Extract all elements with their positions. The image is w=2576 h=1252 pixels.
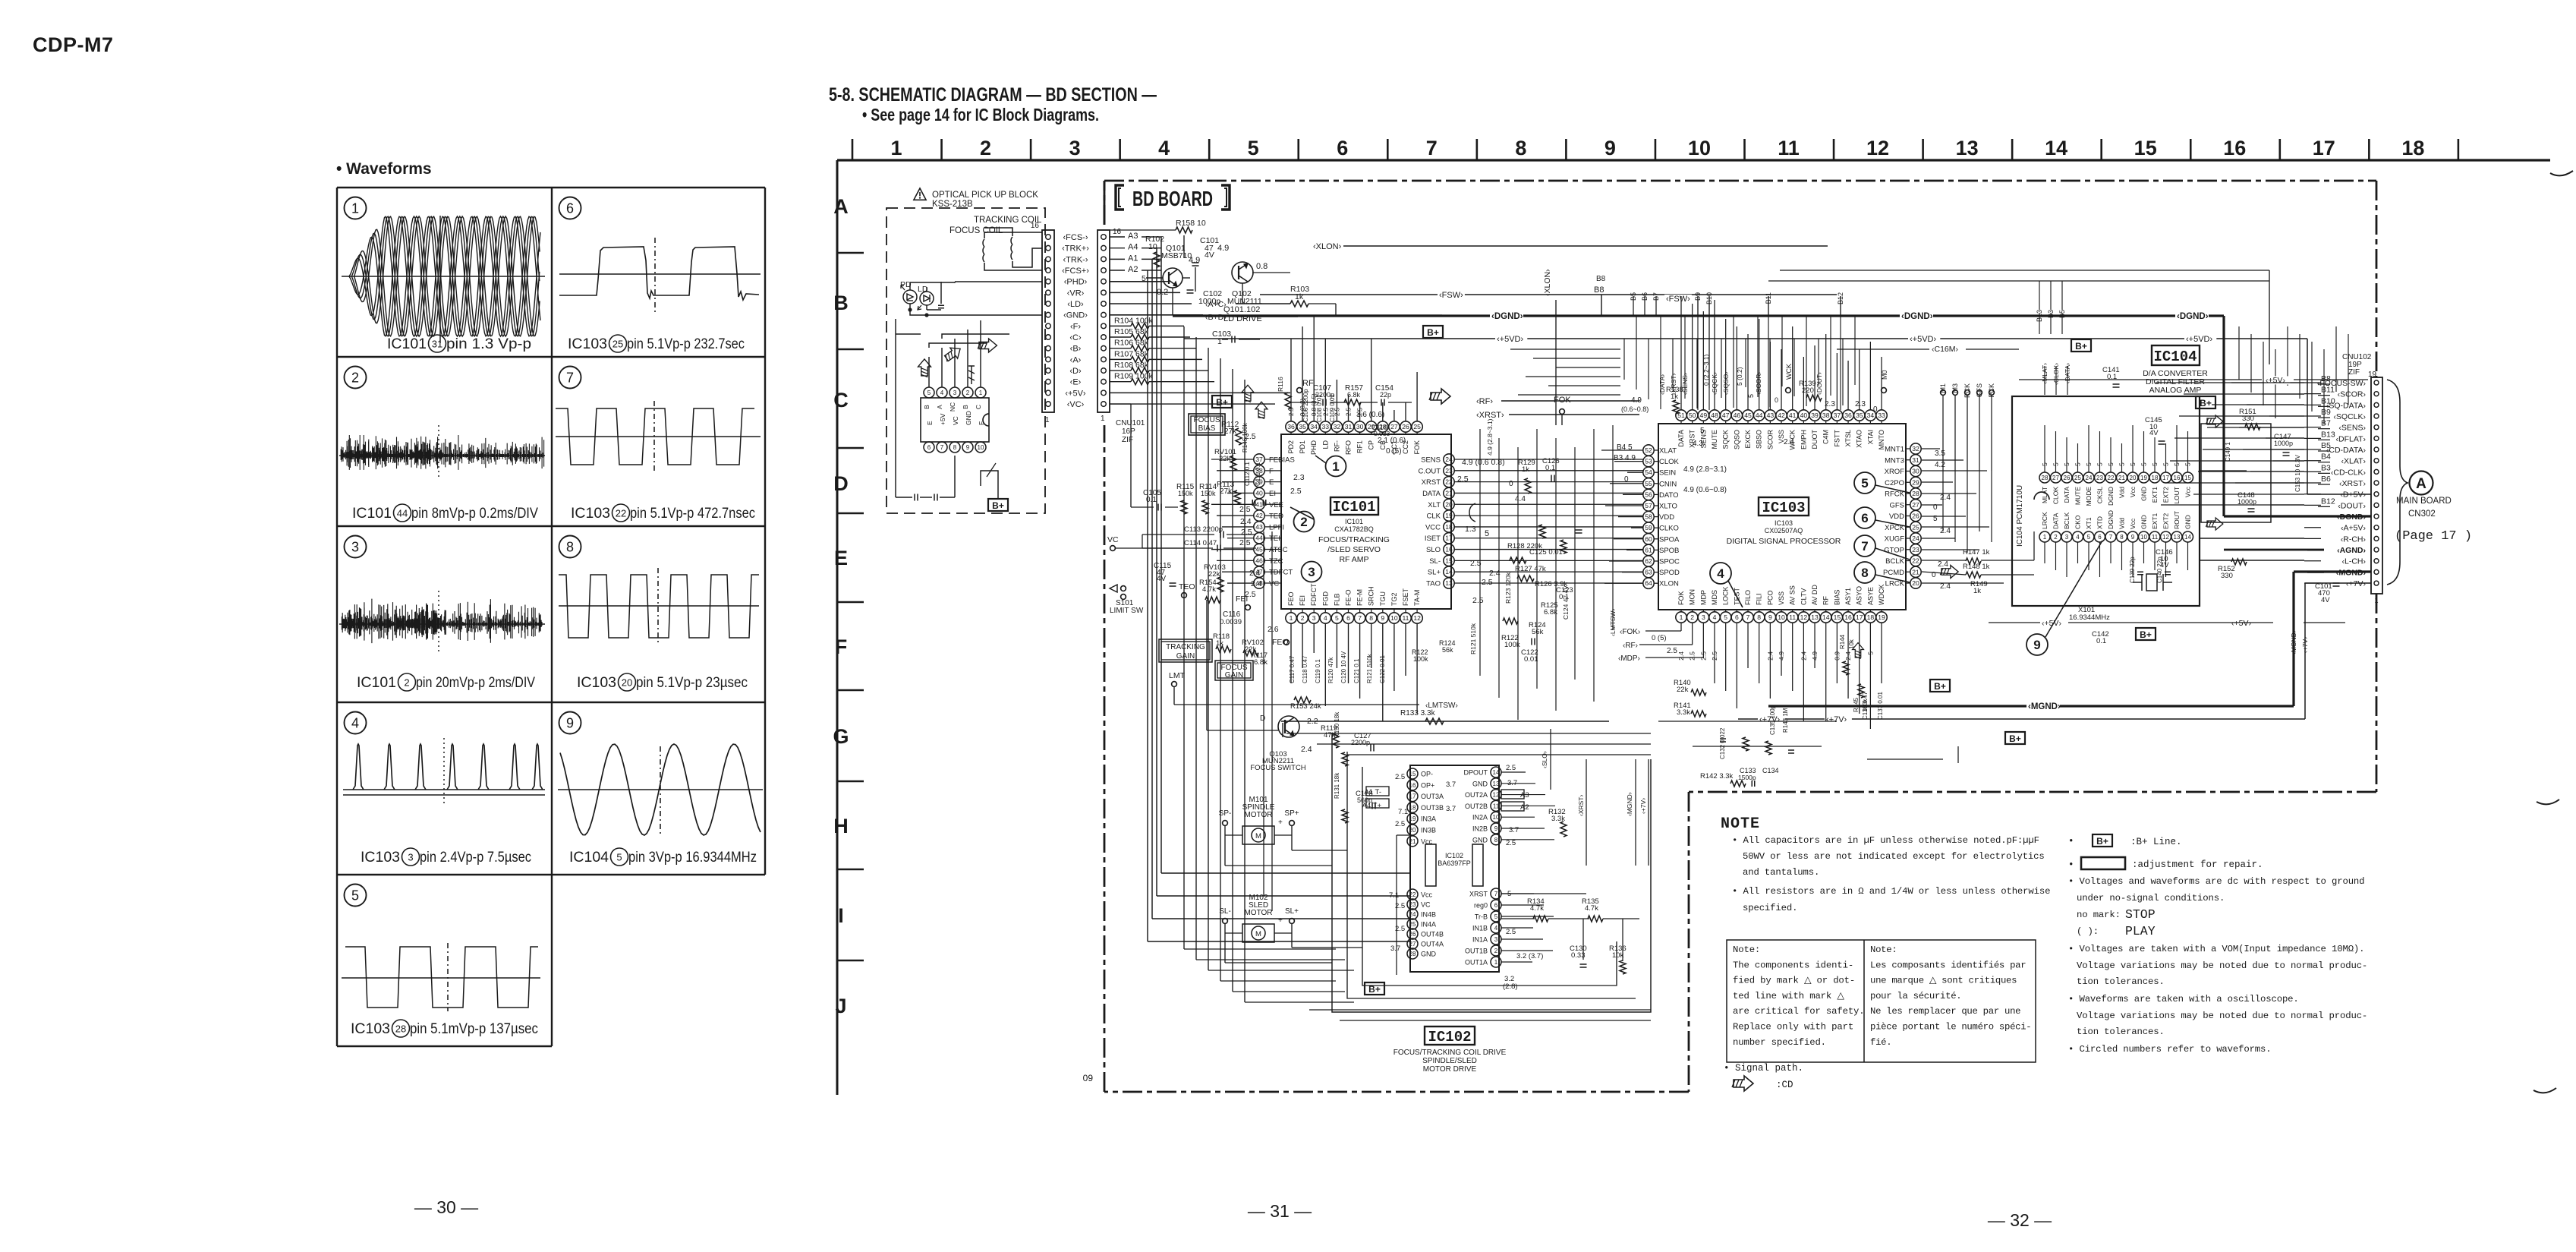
svg-text:42: 42 <box>1778 412 1785 419</box>
svg-text:SEIN: SEIN <box>1659 469 1676 478</box>
svg-text:MAIN BOARD: MAIN BOARD <box>2396 497 2452 506</box>
svg-text:LRCK: LRCK <box>2041 512 2049 529</box>
svg-text:TEO: TEO <box>1179 582 1195 591</box>
svg-text:1: 1 <box>890 137 902 159</box>
svg-text:24: 24 <box>1409 911 1416 918</box>
svg-text:— 31 —: — 31 — <box>1248 1201 1312 1221</box>
svg-text:TGU: TGU <box>1379 591 1387 606</box>
svg-text:‹DGND›: ‹DGND› <box>2337 512 2366 522</box>
svg-text:‹LMTSW›: ‹LMTSW› <box>1609 608 1617 636</box>
svg-text:330: 330 <box>2242 415 2254 423</box>
svg-text:14: 14 <box>1493 769 1500 776</box>
svg-text:16: 16 <box>1031 222 1040 230</box>
svg-text:RF: RF <box>1822 596 1830 605</box>
svg-text:2.4: 2.4 <box>1940 527 1951 535</box>
svg-text:PHD: PHD <box>1310 440 1318 456</box>
svg-text:9: 9 <box>2033 638 2040 652</box>
svg-text:4.9 (0.6~0.8): 4.9 (0.6~0.8) <box>1683 486 1727 494</box>
svg-text:2: 2 <box>1300 515 1307 529</box>
svg-text:13: 13 <box>1445 579 1453 587</box>
svg-text:28: 28 <box>395 1023 406 1035</box>
svg-text:TRACKING: TRACKING <box>1166 643 1205 651</box>
svg-text:10: 10 <box>1148 242 1157 251</box>
svg-text:1: 1 <box>1045 416 1050 424</box>
svg-text:CNIN: CNIN <box>1659 480 1677 488</box>
svg-text:EXT2: EXT2 <box>2162 487 2170 503</box>
svg-text:FE-O: FE-O <box>1345 590 1353 607</box>
svg-text:‹MGND›: ‹MGND› <box>2028 702 2061 711</box>
svg-text:4.9: 4.9 <box>1778 651 1785 661</box>
svg-text:4V: 4V <box>2321 596 2330 604</box>
svg-text:3: 3 <box>953 389 957 396</box>
svg-text:A: A <box>936 405 943 409</box>
svg-text:‹DATA›: ‹DATA› <box>1658 374 1666 395</box>
svg-text:Vcc: Vcc <box>2129 486 2137 497</box>
svg-text:— 32 —: — 32 — <box>1988 1210 2052 1230</box>
svg-text:under no-signal conditions.: under no-signal conditions. <box>2077 893 2225 904</box>
svg-text:XTD: XTD <box>2096 516 2104 529</box>
svg-text:‹FOK›: ‹FOK› <box>1620 628 1640 636</box>
svg-text:35: 35 <box>1856 412 1863 419</box>
svg-text:4.9 (2.8~3.1): 4.9 (2.8~3.1) <box>1683 465 1727 474</box>
svg-text:C120 10 4V: C120 10 4V <box>1340 651 1347 683</box>
svg-text:C153 10 6.3V: C153 10 6.3V <box>2294 454 2301 492</box>
svg-text:41: 41 <box>1789 412 1797 419</box>
svg-text:2: 2 <box>966 389 970 396</box>
svg-text:34: 34 <box>1310 423 1318 430</box>
svg-text:MOTOR DRIVE: MOTOR DRIVE <box>1423 1065 1477 1074</box>
svg-text:0: 0 <box>1624 475 1629 484</box>
svg-text:E: E <box>1269 478 1274 487</box>
svg-text:16: 16 <box>1445 546 1453 553</box>
svg-text:•: • <box>2068 836 2074 847</box>
svg-text:2: 2 <box>980 137 991 159</box>
svg-text:RF1: RF1 <box>1356 440 1364 453</box>
svg-text:‹TRK-›: ‹TRK-› <box>1063 255 1088 264</box>
svg-text:3.7: 3.7 <box>1446 781 1456 789</box>
svg-text:R130 18k: R130 18k <box>1334 711 1340 738</box>
svg-text:AV DD: AV DD <box>1811 585 1819 605</box>
svg-text:18: 18 <box>1409 804 1416 811</box>
svg-text:— 30 —: — 30 — <box>414 1197 478 1217</box>
svg-text:17: 17 <box>2313 137 2335 159</box>
svg-text:B+: B+ <box>2096 836 2108 847</box>
svg-text:C149 1: C149 1 <box>2225 442 2231 462</box>
svg-text:C111 0.1: C111 0.1 <box>1255 462 1261 486</box>
svg-text:• See page 14 for IC Block Dia: • See page 14 for IC Block Diagrams. <box>862 105 1099 125</box>
svg-text:1.3: 1.3 <box>1465 525 1476 534</box>
svg-text:DATA: DATA <box>2052 512 2060 529</box>
svg-text:AV SS: AV SS <box>1789 585 1797 605</box>
svg-text:OUT3B: OUT3B <box>1421 804 1444 812</box>
svg-text:reg0: reg0 <box>1474 902 1488 910</box>
svg-text:FOK: FOK <box>1413 440 1421 455</box>
svg-text:4: 4 <box>1324 614 1327 622</box>
svg-text:The components identi-: The components identi- <box>1733 960 1853 970</box>
svg-text:18: 18 <box>1867 613 1875 621</box>
svg-text:A: A <box>833 195 849 218</box>
svg-text:OUT3A: OUT3A <box>1421 793 1444 800</box>
svg-text:1k: 1k <box>1522 465 1529 474</box>
svg-text:14: 14 <box>1445 568 1453 576</box>
svg-text:R144: R144 <box>1839 634 1846 649</box>
svg-text:B4: B4 <box>2321 453 2331 462</box>
svg-text:FEBIAS: FEBIAS <box>1269 456 1295 465</box>
svg-text:CX02507AQ: CX02507AQ <box>1765 527 1803 535</box>
svg-text:15: 15 <box>1445 557 1453 564</box>
svg-text:7.1: 7.1 <box>1389 891 1399 900</box>
svg-text:DUOT: DUOT <box>1811 430 1819 449</box>
svg-text:2.3: 2.3 <box>1293 473 1305 482</box>
svg-text:50WV or less are not indicated: 50WV or less are not indicated except fo… <box>1743 851 2045 862</box>
svg-text:1: 1 <box>1680 613 1683 621</box>
svg-text:20: 20 <box>1912 579 1919 587</box>
svg-text:‹GND›: ‹GND› <box>1063 311 1088 320</box>
svg-text:R120 47k: R120 47k <box>1327 657 1334 683</box>
svg-text:SL-: SL- <box>1429 557 1441 566</box>
svg-text:19: 19 <box>1445 512 1453 519</box>
svg-text:M: M <box>1255 832 1261 840</box>
svg-text:• Waveforms: • Waveforms <box>336 160 432 178</box>
svg-text:GND: GND <box>2184 515 2192 529</box>
svg-text:19: 19 <box>1409 815 1416 822</box>
svg-text:• Voltages are taken with a VO: • Voltages are taken with a VOM(Input im… <box>2068 944 2364 954</box>
svg-text:27: 27 <box>1409 941 1416 948</box>
svg-text:SQCK: SQCK <box>1722 430 1730 449</box>
svg-text:FLB: FLB <box>1333 593 1340 606</box>
svg-text:XLT: XLT <box>1428 501 1441 509</box>
svg-text:2.4: 2.4 <box>1940 582 1951 591</box>
svg-text:SPOC: SPOC <box>1659 558 1680 566</box>
svg-text:‹DGND›: ‹DGND› <box>2177 312 2209 321</box>
svg-text:6.8k: 6.8k <box>1254 658 1268 667</box>
svg-text:4: 4 <box>351 715 359 730</box>
svg-text:5: 5 <box>1724 613 1727 621</box>
svg-text:OPTICAL PICK UP BLOCK: OPTICAL PICK UP BLOCK <box>932 191 1038 200</box>
svg-text:H: H <box>833 815 849 837</box>
svg-text:R131 18k: R131 18k <box>1334 772 1340 799</box>
svg-text:20: 20 <box>1445 500 1453 508</box>
svg-text:SPOB: SPOB <box>1659 547 1679 555</box>
svg-text:TG2: TG2 <box>1390 592 1398 606</box>
svg-text:7: 7 <box>1358 614 1362 622</box>
svg-text:55: 55 <box>1645 480 1652 487</box>
svg-text:100k: 100k <box>1862 699 1869 712</box>
svg-text:8: 8 <box>1757 613 1761 621</box>
svg-text:4: 4 <box>1494 925 1498 932</box>
svg-text:R145: R145 <box>1853 697 1860 712</box>
svg-text:XROF: XROF <box>1885 468 1905 476</box>
svg-text:SP+: SP+ <box>1284 809 1299 818</box>
svg-text:SL-: SL- <box>1219 907 1231 916</box>
svg-text:Les composants identifiés par: Les composants identifiés par <box>1870 960 2026 970</box>
svg-text:16: 16 <box>1409 782 1416 789</box>
svg-text:22k: 22k <box>1677 686 1689 694</box>
svg-text:32: 32 <box>1334 423 1341 430</box>
svg-text:I: I <box>838 904 844 927</box>
svg-text:27: 27 <box>1390 423 1398 430</box>
svg-text:SENS: SENS <box>1421 456 1441 465</box>
svg-text:4.3: 4.3 <box>1693 440 1703 448</box>
svg-text:OUT2B: OUT2B <box>1465 803 1488 810</box>
svg-text:CLOK: CLOK <box>2052 487 2060 504</box>
svg-text:specified.: specified. <box>1743 903 1797 913</box>
svg-text:no mark:: no mark: <box>2077 910 2121 920</box>
svg-text:24: 24 <box>2086 475 2093 481</box>
svg-text:SCOR: SCOR <box>1766 430 1774 450</box>
svg-text:OP-: OP- <box>1421 771 1433 778</box>
svg-text:60: 60 <box>1645 535 1652 543</box>
svg-text:GAIN: GAIN <box>1225 671 1243 680</box>
svg-text:FDFCT: FDFCT <box>1310 583 1318 606</box>
svg-text:C117 0.47: C117 0.47 <box>1289 655 1296 683</box>
svg-text:‹FCS-›: ‹FCS-› <box>1063 233 1088 242</box>
svg-text:‹RF›: ‹RF› <box>1476 397 1493 406</box>
svg-text:VC: VC <box>1421 901 1431 909</box>
svg-text:2.5: 2.5 <box>1506 839 1516 847</box>
svg-text:NOTE: NOTE <box>1721 815 1760 833</box>
svg-text:‹L-CH›: ‹L-CH› <box>2342 557 2367 566</box>
svg-text:DGND: DGND <box>2107 487 2115 506</box>
svg-text:Q101.102: Q101.102 <box>1223 305 1260 314</box>
svg-text:5-8. SCHEMATIC DIAGRAM — BD SE: 5-8. SCHEMATIC DIAGRAM — BD SECTION — <box>829 84 1157 106</box>
svg-text:4: 4 <box>1713 613 1717 621</box>
svg-text:EMPH: EMPH <box>1800 430 1807 449</box>
svg-text:2.3: 2.3 <box>1855 400 1866 408</box>
svg-text:DIGITAL SIGNAL PROCESSOR: DIGITAL SIGNAL PROCESSOR <box>1727 537 1841 546</box>
svg-text:10: 10 <box>1493 814 1500 821</box>
svg-text:E: E <box>834 547 848 569</box>
svg-text:33: 33 <box>1878 412 1885 419</box>
svg-text:‹XRST›: ‹XRST› <box>1577 795 1585 817</box>
svg-text:D: D <box>833 472 849 495</box>
svg-text:‹A+C›: ‹A+C› <box>1205 300 1227 309</box>
svg-text:‹+5VD›: ‹+5VD› <box>2186 335 2212 344</box>
svg-text:GTOP: GTOP <box>1884 546 1904 554</box>
svg-text:B5: B5 <box>2321 441 2331 450</box>
svg-text:pour la sécurité.: pour la sécurité. <box>1870 991 1961 1001</box>
svg-text:6: 6 <box>566 200 574 216</box>
svg-text:3: 3 <box>1312 614 1316 622</box>
svg-text:5: 5 <box>927 389 931 396</box>
svg-text:FEI: FEI <box>1299 595 1306 606</box>
svg-text:30: 30 <box>1912 468 1919 475</box>
svg-text:BCLK: BCLK <box>2063 512 2071 529</box>
svg-text:SQSO: SQSO <box>1733 430 1740 449</box>
svg-text:SPOD: SPOD <box>1659 569 1680 577</box>
svg-text:XLON: XLON <box>1659 580 1679 588</box>
svg-text:•: • <box>2068 859 2074 870</box>
svg-text:pin 2.4Vp-p 7.5µsec: pin 2.4Vp-p 7.5µsec <box>420 850 531 866</box>
svg-text:ZIF: ZIF <box>2348 368 2360 377</box>
svg-text:CXA1782BQ: CXA1782BQ <box>1334 525 1374 533</box>
svg-text:36: 36 <box>1287 423 1295 430</box>
svg-text:31: 31 <box>432 339 442 350</box>
svg-text:CKO: CKO <box>2074 515 2082 529</box>
svg-text:37: 37 <box>1834 412 1841 419</box>
svg-text:ASYO: ASYO <box>1856 586 1863 605</box>
svg-text:DATA: DATA <box>2063 487 2071 503</box>
svg-text:FGD: FGD <box>1321 591 1329 606</box>
svg-text:2.6: 2.6 <box>1268 625 1279 634</box>
svg-text:pin 5.1mVp-p 137µsec: pin 5.1mVp-p 137µsec <box>410 1021 538 1037</box>
svg-text:‹+7V›: ‹+7V› <box>2346 579 2366 588</box>
svg-text:3: 3 <box>1494 936 1498 943</box>
svg-text:‹XRST›: ‹XRST› <box>2339 479 2367 488</box>
svg-text:27k: 27k <box>1224 427 1237 436</box>
svg-text:pin 5.1Vp-p 23µsec: pin 5.1Vp-p 23µsec <box>636 675 748 691</box>
svg-text:are critical for safety.: are critical for safety. <box>1733 1006 1865 1017</box>
svg-text:IN3B: IN3B <box>1421 827 1436 834</box>
svg-text:EI: EI <box>1269 490 1276 498</box>
svg-text:C137 0.01: C137 0.01 <box>1877 692 1884 720</box>
svg-text:‹+5V›: ‹+5V› <box>2266 376 2285 385</box>
svg-text:XRST: XRST <box>1422 478 1441 487</box>
svg-text:0: 0 <box>1775 396 1778 404</box>
svg-text:4V: 4V <box>1157 575 1167 583</box>
svg-text:‹AGND›: ‹AGND› <box>2337 546 2366 555</box>
svg-text:Vcc: Vcc <box>2129 518 2137 529</box>
svg-text:‹R-CH›: ‹R-CH› <box>2341 535 2367 544</box>
svg-text:OUT1A: OUT1A <box>1465 959 1488 967</box>
svg-text:EXT1: EXT1 <box>2151 512 2159 529</box>
svg-text:28: 28 <box>2042 475 2049 481</box>
svg-text:XLTO: XLTO <box>1659 503 1677 511</box>
svg-text:OP+: OP+ <box>1421 781 1434 789</box>
svg-text:45: 45 <box>1255 546 1263 553</box>
svg-text:2: 2 <box>1494 948 1498 954</box>
svg-text:VDD: VDD <box>1889 512 1904 521</box>
svg-text:GAIN: GAIN <box>1176 652 1195 661</box>
svg-text:5: 5 <box>1494 913 1498 920</box>
svg-text:IC101: IC101 <box>1332 499 1375 516</box>
svg-text:Vdd: Vdd <box>2118 487 2126 498</box>
svg-text:22p: 22p <box>1380 391 1391 399</box>
svg-text:MDS: MDS <box>1711 590 1718 605</box>
svg-text:13: 13 <box>1493 781 1500 787</box>
svg-text::B+ Line.: :B+ Line. <box>2130 837 2182 847</box>
svg-text:R121 510k: R121 510k <box>1366 653 1373 683</box>
svg-text:CLOK: CLOK <box>1659 458 1680 466</box>
svg-text:39: 39 <box>1811 412 1819 419</box>
svg-text:3: 3 <box>2065 534 2069 541</box>
svg-text:‹+5VD›: ‹+5VD› <box>1910 335 1936 344</box>
svg-text:2.5: 2.5 <box>1395 820 1405 828</box>
svg-text:fied by mark △ or dot-: fied by mark △ or dot- <box>1733 976 1855 986</box>
svg-text:‹MGND›: ‹MGND› <box>1626 792 1633 816</box>
svg-text:C: C <box>975 405 982 409</box>
svg-text:2.4: 2.4 <box>1938 560 1948 569</box>
svg-text:OUT4B: OUT4B <box>1421 931 1444 938</box>
svg-text:38: 38 <box>1822 412 1830 419</box>
svg-text:‹D›: ‹D› <box>1069 367 1082 376</box>
svg-text:13: 13 <box>2174 534 2181 541</box>
svg-text:4.9: 4.9 <box>1189 256 1200 265</box>
svg-text:‹SCOR›: ‹SCOR› <box>2338 390 2367 399</box>
svg-text:FOK: FOK <box>1554 396 1571 405</box>
svg-text:A: A <box>2416 476 2426 492</box>
svg-text:6.8k: 6.8k <box>1544 608 1557 617</box>
svg-text:5: 5 <box>1861 476 1868 490</box>
svg-text:19: 19 <box>1878 613 1885 621</box>
svg-text:43: 43 <box>1767 412 1775 419</box>
svg-text:IN3A: IN3A <box>1421 815 1436 823</box>
svg-text:‹MDP›: ‹MDP› <box>1618 654 1640 663</box>
svg-text:‹+7V›: ‹+7V› <box>2301 637 2309 653</box>
svg-text:BD BOARD: BD BOARD <box>1132 187 1213 210</box>
svg-text:• Voltages and waveforms are d: • Voltages and waveforms are dc with res… <box>2068 876 2364 887</box>
svg-text:7: 7 <box>566 370 574 385</box>
svg-text:Vcc: Vcc <box>2184 486 2192 497</box>
svg-text:FOK: FOK <box>1677 591 1685 605</box>
svg-text:5: 5 <box>1335 614 1339 622</box>
svg-text:ted line with mark △: ted line with mark △ <box>1733 991 1844 1001</box>
svg-text:5: 5 <box>351 888 359 903</box>
svg-text:FEI: FEI <box>1236 594 1248 604</box>
svg-text:0.9: 0.9 <box>1833 651 1841 661</box>
svg-text:4: 4 <box>940 389 944 396</box>
svg-text:B3: B3 <box>2321 463 2331 472</box>
svg-text:TED: TED <box>1269 512 1283 521</box>
svg-text:2: 2 <box>1690 613 1694 621</box>
svg-text:2.5: 2.5 <box>1482 578 1493 587</box>
svg-text:TAO: TAO <box>1426 580 1441 588</box>
svg-text:42: 42 <box>1255 512 1263 519</box>
svg-text:57: 57 <box>1645 502 1652 509</box>
svg-text:23: 23 <box>1409 901 1416 908</box>
svg-text:LPFI: LPFI <box>1269 523 1284 531</box>
svg-text:11: 11 <box>1778 137 1800 159</box>
svg-text:35: 35 <box>1299 423 1306 430</box>
svg-text:RF-: RF- <box>1333 440 1340 452</box>
svg-text:‹+5V›: ‹+5V› <box>1065 389 1086 398</box>
svg-text:50: 50 <box>1689 412 1696 419</box>
svg-text:14: 14 <box>2184 534 2191 541</box>
svg-text:R133 3.3k: R133 3.3k <box>1400 709 1436 717</box>
svg-text:26: 26 <box>2064 475 2071 481</box>
svg-text:CLTV: CLTV <box>1800 588 1807 605</box>
svg-text:PLAY: PLAY <box>2125 924 2156 938</box>
svg-text:LIMIT SW: LIMIT SW <box>1110 607 1144 615</box>
svg-text:F: F <box>1269 467 1274 475</box>
svg-text:20: 20 <box>622 677 632 689</box>
svg-text:C113 2200p: C113 2200p <box>1184 525 1223 534</box>
svg-text:CP: CP <box>1368 440 1375 450</box>
svg-text:8: 8 <box>2120 534 2124 541</box>
svg-text:11: 11 <box>2152 534 2159 541</box>
svg-text:30: 30 <box>1356 423 1364 430</box>
svg-text:46: 46 <box>1255 557 1263 564</box>
svg-text:25: 25 <box>1409 921 1416 928</box>
svg-text:R143 1M: R143 1M <box>1782 708 1789 733</box>
svg-text:LMT: LMT <box>1169 671 1186 680</box>
svg-text:3.7: 3.7 <box>1446 805 1456 813</box>
svg-text:15: 15 <box>2184 475 2191 481</box>
svg-text:29: 29 <box>1912 478 1919 486</box>
svg-text:25: 25 <box>613 339 623 350</box>
svg-text:IC103: IC103 <box>351 1021 390 1037</box>
svg-text:SRCH: SRCH <box>1368 586 1375 606</box>
svg-text:FOCUS SWITCH: FOCUS SWITCH <box>1250 764 1305 772</box>
svg-text:XLAT: XLAT <box>1659 447 1677 456</box>
svg-text:‹+5V›: ‹+5V› <box>2231 619 2251 628</box>
svg-text:4V: 4V <box>2149 429 2159 437</box>
svg-text:RF: RF <box>1302 379 1314 388</box>
svg-text:12: 12 <box>2162 534 2169 541</box>
svg-text:150k: 150k <box>1178 490 1193 497</box>
svg-text:4.4: 4.4 <box>1515 495 1526 503</box>
svg-text:C: C <box>833 389 849 412</box>
